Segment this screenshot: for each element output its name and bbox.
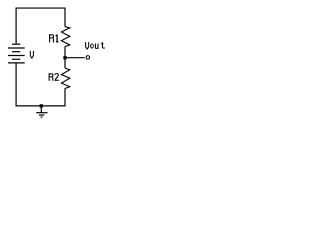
battery long plate 3 (8, 62, 25, 64)
wire Vout tap (65, 57, 85, 59)
battery long plate 1 (8, 47, 25, 49)
wire R1 to node A (64, 47, 66, 58)
label V battery (30, 51, 33, 58)
ground stub (40, 106, 42, 113)
battery long plate 2 (8, 55, 25, 57)
wire top loop (16, 8, 65, 44)
ground bar 2 (39, 114, 44, 116)
node A junction dot (63, 56, 66, 59)
ground bar 1 (36, 112, 47, 114)
battery short plate 2 (12, 51, 20, 53)
wire node A to R2 (64, 58, 66, 68)
wire bottom loop (16, 63, 65, 106)
label Vout (86, 42, 105, 49)
terminal circle Vout (86, 56, 89, 59)
ground junction dot (40, 104, 43, 107)
label R2 (49, 73, 59, 81)
battery short plate 1 (12, 43, 20, 45)
resistor R2 (61, 68, 69, 88)
ground bar 3 (41, 116, 43, 118)
battery short plate 3 (12, 58, 20, 60)
label R1 (49, 34, 59, 42)
resistor R1 (61, 27, 69, 47)
